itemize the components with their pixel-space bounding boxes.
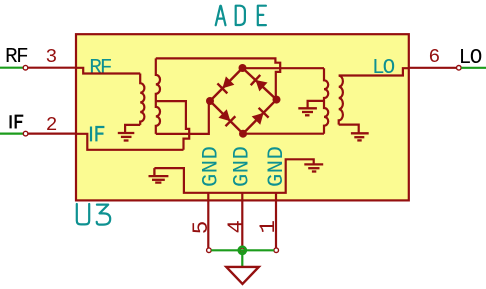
reference designator U3 <box>77 204 110 225</box>
wire T1 secondary top to right ring node <box>156 58 280 99</box>
pin 4 circle <box>240 248 245 253</box>
wire IF net (green) <box>0 133 23 135</box>
ground (internal left) <box>149 168 169 183</box>
wire IF entry <box>75 134 183 150</box>
svg-text:2: 2 <box>46 114 58 136</box>
pin 1 circle <box>274 248 279 253</box>
transformer T1 primary coil <box>140 74 144 125</box>
svg-text:GND: GND <box>230 146 255 187</box>
svg-text:5: 5 <box>188 221 214 235</box>
node right vertex junction <box>273 96 281 104</box>
diode ring edges <box>210 68 277 134</box>
diode D3 (bottom-right edge) <box>252 108 269 125</box>
pin 3 circle <box>23 65 28 70</box>
ground (internal right) <box>304 164 323 171</box>
svg-text:3: 3 <box>46 46 58 68</box>
pin 2 wire <box>28 133 75 135</box>
wire GND bus (green) <box>211 249 274 251</box>
wire RF entry to transformer primary <box>75 68 140 74</box>
wire top vertex to T2 <box>243 67 325 69</box>
node bottom vertex junction <box>239 130 247 138</box>
ground (T2 secondary) <box>351 133 369 140</box>
diode D4 (top-right edge) <box>251 75 268 91</box>
wire T2 secondary top to LO pin <box>339 68 409 75</box>
svg-text:4: 4 <box>223 220 249 234</box>
transformer T2 secondary coil <box>339 76 343 125</box>
wire primary bottom to ground <box>125 125 140 132</box>
pin 6 circle <box>457 66 462 71</box>
svg-text:RF: RF <box>89 57 112 80</box>
pin 1 wire <box>275 193 277 248</box>
wire RF net (green) <box>0 67 23 69</box>
node IF (external net label) <box>11 115 24 128</box>
op-amp U3 body (IC outline ADE mixer) <box>76 34 409 200</box>
node top vertex junction <box>239 64 247 72</box>
svg-text:6: 6 <box>429 46 441 68</box>
diode D1 (top-left edge) <box>217 76 234 93</box>
junction ring pin 4 <box>239 247 246 254</box>
pin 3 wire <box>28 67 76 69</box>
wire internal GND bus left <box>154 159 313 193</box>
ground (T2 center tap) <box>298 108 317 115</box>
wire T2 secondary bottom to ground <box>339 125 359 133</box>
wire to ground symbol (green) <box>241 250 243 266</box>
diode D2 (bottom-left edge) <box>218 109 235 126</box>
svg-text:LO: LO <box>459 47 482 70</box>
svg-text:GND: GND <box>199 146 224 187</box>
wire LO net (green) <box>461 67 486 69</box>
transformer T2 primary coil (ring side, center tapped) <box>324 68 328 134</box>
wire T2 primary bottom to bottom vertex <box>243 133 324 135</box>
node left vertex junction <box>206 97 214 105</box>
ground (T1 primary) <box>118 133 135 141</box>
wire T1 secondary bottom to left ring node <box>156 101 209 134</box>
pin 2 circle <box>23 131 28 136</box>
pin label IF (inside) <box>91 127 104 142</box>
pin 5 wire <box>207 193 209 248</box>
wire T1 center tap to IF <box>156 101 189 150</box>
ground GND triangle <box>226 267 258 284</box>
pin 4 wire <box>241 193 243 248</box>
part value label ADE <box>216 6 266 26</box>
svg-text:1: 1 <box>255 220 281 234</box>
pin 5 circle <box>207 248 212 253</box>
wire T2 center tap to ground <box>308 101 324 108</box>
pin 6 wire <box>409 67 457 69</box>
transformer T1 secondary coil (center tapped) <box>156 58 160 133</box>
